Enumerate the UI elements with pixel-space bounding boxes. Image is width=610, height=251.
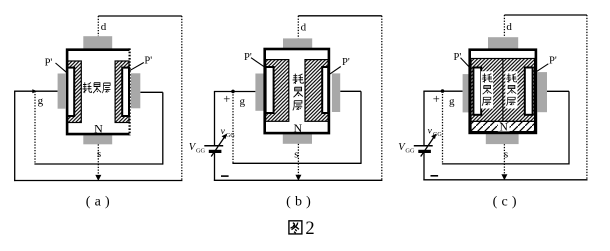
drain metal contact (c) bbox=[488, 37, 518, 48]
callout line right P' (c) bbox=[537, 64, 548, 72]
drain metal contact (b) bbox=[283, 38, 312, 48]
battery VGG negative plate (c) bbox=[418, 150, 431, 153]
wire: inner loop bottom (c) bbox=[442, 163, 569, 165]
arrow junction of source lead on bottom wire (a) bbox=[95, 175, 101, 181]
depletion boundary center line (c) bbox=[502, 59, 504, 122]
svg-text:(a): (a) bbox=[86, 195, 114, 210]
wire: source lead s (c), dotted bbox=[503, 144, 505, 179]
svg-text:s: s bbox=[97, 148, 101, 160]
battery VGG negative plate (b) bbox=[209, 150, 222, 153]
label - polarity (b) bbox=[221, 175, 229, 177]
svg-text:s: s bbox=[504, 148, 508, 160]
wire: gate lead g (b) bbox=[214, 91, 256, 93]
svg-text:2: 2 bbox=[305, 219, 314, 239]
right P' gate region white strip (b) bbox=[322, 67, 328, 113]
wire: right gate lead (a) bbox=[140, 91, 163, 93]
left P' gate region white strip (a) bbox=[67, 68, 74, 116]
wire: top loop (b) bbox=[298, 15, 382, 17]
right P' gate region white strip (a) bbox=[122, 68, 129, 116]
svg-text:GG: GG bbox=[405, 148, 415, 155]
svg-text:N: N bbox=[500, 122, 509, 134]
svg-text:+: + bbox=[223, 92, 230, 106]
source metal contact (c) bbox=[486, 134, 519, 144]
wire: source lead s (a), dotted bbox=[97, 144, 99, 179]
wire: outer left vertical lower (c) bbox=[423, 152, 425, 181]
white box behind N label (c) bbox=[498, 123, 510, 132]
wire: right gate lead (b) bbox=[340, 90, 361, 92]
wire: outer bottom (c) bbox=[423, 179, 587, 181]
wire: outer left vertical lower (b) bbox=[214, 152, 216, 181]
left gate metal contact (a) bbox=[58, 74, 66, 109]
source metal contact (a) bbox=[83, 135, 112, 144]
wire: gate lead g (c) bbox=[423, 90, 462, 92]
right depletion layer hatch (b) bbox=[305, 60, 328, 122]
wire: outer left vertical upper (b) bbox=[214, 92, 216, 146]
source metal contact (b) bbox=[283, 134, 312, 144]
svg-text:d: d bbox=[506, 21, 512, 33]
svg-text:s: s bbox=[294, 148, 298, 160]
wire: dotted drop from gate junction to inner loop (c) bbox=[442, 91, 444, 164]
battery VGG positive plate (c) bbox=[414, 145, 433, 147]
left depletion layer hatch (a) bbox=[67, 61, 81, 123]
bottom depletion band (c) bbox=[471, 121, 535, 131]
svg-text:N: N bbox=[293, 121, 302, 135]
label 耗尽层 depletion-layer text (a) bbox=[82, 82, 110, 93]
junction dot on gate lead (c) bbox=[441, 89, 445, 93]
svg-text:GG: GG bbox=[433, 132, 442, 138]
svg-text:g: g bbox=[38, 95, 44, 107]
svg-text:g: g bbox=[240, 95, 246, 107]
JFET body N-channel block (a) bbox=[67, 50, 129, 134]
arrow junction of source lead on bottom wire (b) bbox=[295, 175, 301, 181]
callout line right P' (b) bbox=[329, 67, 341, 75]
wire: inner loop right vertical (b) bbox=[360, 91, 362, 164]
right gate metal contact (c) bbox=[537, 72, 547, 112]
battery VGG positive plate (b) bbox=[204, 145, 223, 147]
right wall of body (a), dotted bbox=[129, 48, 131, 135]
svg-text:d: d bbox=[101, 21, 107, 33]
white box behind left 耗尽层 text (c) bbox=[481, 71, 493, 108]
wire: outer bottom (b) bbox=[214, 179, 383, 181]
wire: top loop (c) bbox=[504, 14, 587, 16]
label - polarity (c) bbox=[431, 175, 439, 177]
wire: drain lead d (c), dotted bbox=[503, 15, 505, 37]
wire: outer left vertical upper (c) bbox=[423, 91, 425, 145]
wire: drain lead d (b), dotted bbox=[297, 16, 299, 39]
svg-text:P': P' bbox=[454, 52, 462, 63]
right depletion layer hatch (a) bbox=[115, 61, 129, 123]
right P' gate region white strip (c) bbox=[525, 68, 533, 115]
svg-text:P': P' bbox=[549, 55, 557, 66]
svg-text:(c): (c) bbox=[493, 195, 521, 210]
svg-text:g: g bbox=[449, 95, 455, 107]
wire: outer right vertical (a), dotted bbox=[181, 16, 183, 181]
wire: inner loop right vertical (c) bbox=[568, 91, 570, 164]
svg-text:P': P' bbox=[342, 57, 350, 68]
right gate metal contact (a) bbox=[131, 73, 141, 108]
left P' gate region white strip (c) bbox=[473, 68, 481, 115]
left gate metal contact (c) bbox=[463, 74, 472, 112]
left depletion layer hatch (b) bbox=[266, 60, 289, 122]
variable-source arrow through battery (b) bbox=[211, 136, 225, 157]
wire: drain lead d (a), dotted bbox=[97, 16, 99, 36]
wire: inner loop bottom (b) bbox=[232, 162, 361, 164]
drain metal contact (a) bbox=[83, 36, 112, 48]
white box behind right 耗尽层 text (c) bbox=[505, 71, 517, 108]
wire: gate lead g (a) bbox=[14, 90, 58, 92]
JFET body N-channel block (c) bbox=[470, 50, 536, 133]
svg-text:P': P' bbox=[45, 57, 53, 68]
wire: outer right vertical (c), dotted bbox=[586, 15, 588, 180]
svg-text:GG: GG bbox=[196, 148, 206, 155]
svg-text:+: + bbox=[433, 92, 440, 106]
left gate metal contact (b) bbox=[255, 74, 264, 111]
left P' gate region white strip (b) bbox=[266, 67, 274, 113]
label 耗尽层 vertical text right column (c) bbox=[506, 73, 516, 105]
callout line right P' (a) bbox=[129, 63, 144, 71]
junction arrow on gate lead (a) bbox=[32, 89, 37, 93]
arrow junction of source lead on bottom wire (c) bbox=[501, 174, 507, 180]
wire: inner loop bottom (a) bbox=[34, 163, 162, 165]
wire: dotted drop from gate junction to inner loop (b) bbox=[232, 92, 234, 164]
wire: top loop (a) connecting drain to outer right vertical bbox=[98, 15, 182, 17]
wire: inner loop right vertical (a) bbox=[162, 92, 164, 164]
callout line left P' (b) bbox=[251, 58, 264, 67]
svg-text:P': P' bbox=[244, 52, 252, 63]
wire: outer right vertical (b), dotted bbox=[381, 16, 383, 181]
variable-source arrow through battery (c) bbox=[421, 136, 435, 157]
wire: source lead s (b), dotted bbox=[297, 144, 299, 180]
junction dot on gate lead (b) bbox=[231, 90, 235, 94]
svg-text:d: d bbox=[301, 22, 307, 34]
wire: dotted drop from gate junction to inner loop (a) bbox=[34, 91, 36, 164]
wire: right gate lead (c) bbox=[547, 90, 569, 92]
wire: outer bottom (a) bbox=[14, 180, 182, 182]
label 耗尽层 vertical depletion-layer text (b) bbox=[293, 74, 304, 111]
svg-text:GG: GG bbox=[226, 133, 235, 139]
wire: outer left vertical (a) bbox=[14, 91, 16, 181]
svg-text:(b): (b) bbox=[286, 195, 315, 210]
figure caption 图2 bbox=[289, 219, 315, 239]
pinched-off depletion region filling channel (c) bbox=[471, 59, 535, 122]
callout line left P' (a) bbox=[56, 63, 67, 72]
label 耗尽层 vertical text left column (c) bbox=[482, 73, 492, 105]
callout line left P' (c) bbox=[461, 58, 469, 67]
svg-text:P': P' bbox=[144, 55, 152, 66]
svg-text:N: N bbox=[94, 121, 103, 135]
JFET body N-channel block (b) bbox=[265, 49, 329, 133]
right gate metal contact (b) bbox=[332, 73, 340, 112]
